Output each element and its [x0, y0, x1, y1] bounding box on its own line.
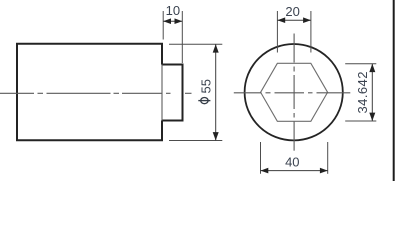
svg-text:40: 40	[285, 155, 299, 170]
dim 40: left extension line	[260, 142, 262, 174]
side view: horizontal centerline axis	[0, 92, 192, 94]
dim 40: dimension line with arrows	[261, 168, 328, 174]
dim 20: right extension line	[310, 11, 312, 53]
dim 10: right extension line	[181, 11, 183, 63]
svg-text:10: 10	[166, 3, 180, 18]
dim 34.642: value label	[355, 71, 370, 113]
dim 34.642: bottom extension line	[345, 120, 376, 122]
dim 40: right extension line	[327, 142, 329, 174]
dim phi55: dimension line with arrows	[213, 44, 219, 140]
front view: horizontal centerline	[234, 92, 350, 94]
dim phi55: bottom extension line	[169, 140, 222, 142]
dim 20: value label	[285, 4, 299, 19]
side view: cylinder body outline	[17, 44, 162, 140]
side view: boss step outline	[162, 65, 183, 121]
dim 20: dimension line with arrows	[277, 17, 311, 23]
dim phi55: top extension line	[169, 43, 222, 45]
dim 34.642: top extension line	[345, 63, 376, 65]
front view: vertical centerline	[293, 34, 295, 151]
dim 20: left extension line	[276, 11, 278, 53]
svg-text:55: 55	[199, 79, 214, 93]
dim 10: value label	[166, 3, 180, 18]
dim 10: dimension line with arrows	[163, 18, 182, 24]
front view: circle outline	[245, 44, 343, 140]
dim 40: value label	[285, 155, 299, 170]
dim phi55: value label	[198, 79, 213, 104]
svg-text:20: 20	[285, 4, 299, 19]
side view: shoulder face edge	[161, 65, 163, 121]
dim 34.642: dimension line with arrows	[369, 64, 375, 121]
dim 10: left extension line	[162, 11, 164, 40]
frame border right	[393, 0, 395, 181]
svg-text:34.642: 34.642	[355, 71, 370, 113]
front view: hexagonal socket	[261, 63, 328, 121]
